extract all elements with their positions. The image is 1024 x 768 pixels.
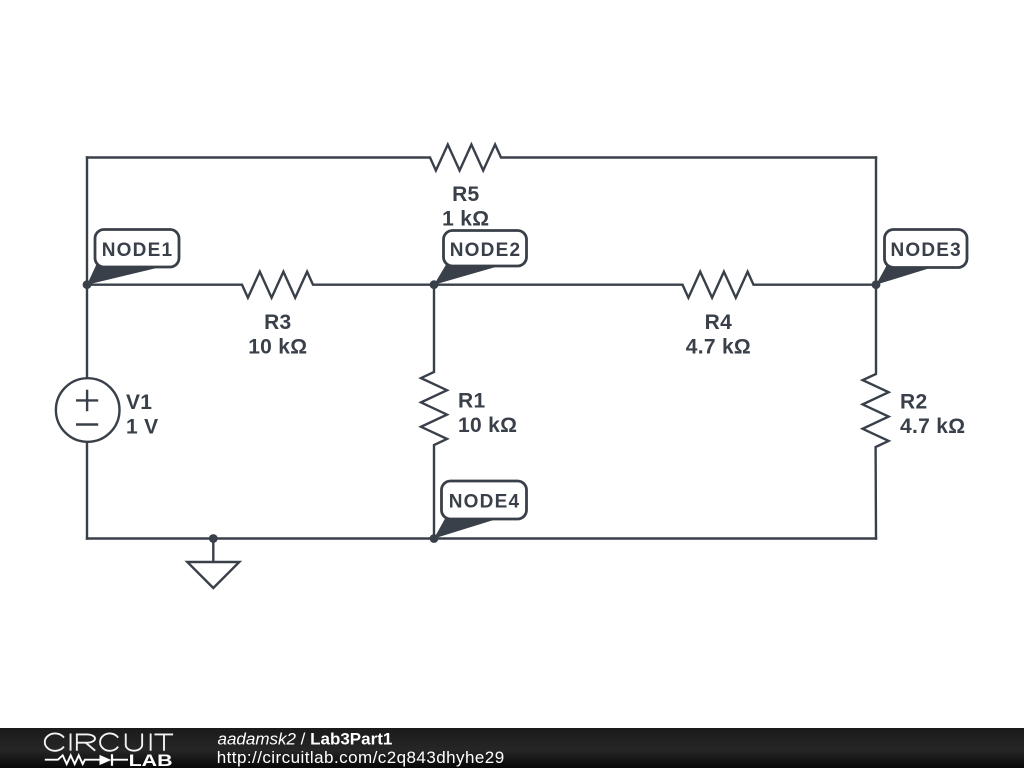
svg-text:NODE3: NODE3 bbox=[890, 240, 961, 261]
svg-text:1 kΩ: 1 kΩ bbox=[442, 208, 489, 231]
svg-text:10 kΩ: 10 kΩ bbox=[248, 336, 307, 359]
svg-text:4.7 kΩ: 4.7 kΩ bbox=[686, 336, 751, 359]
svg-text:R4: R4 bbox=[705, 311, 732, 334]
svg-text:R2: R2 bbox=[900, 390, 927, 413]
svg-text:http://circuitlab.com/c2q843dh: http://circuitlab.com/c2q843dhyhe29 bbox=[217, 748, 505, 767]
svg-text:1 V: 1 V bbox=[126, 415, 158, 438]
svg-text:NODE4: NODE4 bbox=[449, 492, 520, 513]
svg-text:NODE2: NODE2 bbox=[450, 240, 521, 261]
svg-text:R1: R1 bbox=[458, 389, 485, 412]
svg-text:R3: R3 bbox=[264, 311, 291, 334]
svg-text:10 kΩ: 10 kΩ bbox=[458, 414, 517, 437]
svg-text:LAB: LAB bbox=[129, 752, 173, 768]
svg-text:NODE1: NODE1 bbox=[102, 240, 173, 261]
svg-text:R5: R5 bbox=[452, 183, 479, 206]
svg-text:V1: V1 bbox=[126, 391, 152, 414]
svg-text:4.7 kΩ: 4.7 kΩ bbox=[900, 415, 965, 438]
svg-text:aadamsk2 / Lab3Part1: aadamsk2 / Lab3Part1 bbox=[218, 730, 393, 749]
